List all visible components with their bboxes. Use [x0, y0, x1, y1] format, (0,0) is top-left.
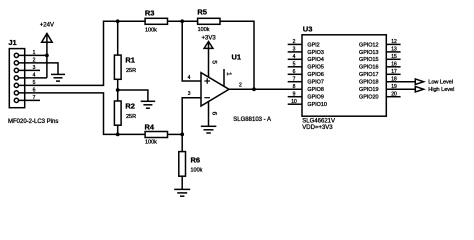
wire to R6: [181, 134, 183, 151]
U3 right pin numbers: [391, 39, 397, 97]
svg-text:2: 2: [239, 83, 242, 89]
wire pin5 to top rail: [19, 21, 146, 85]
svg-text:MF020-2-LC3 Pins: MF020-2-LC3 Pins: [8, 119, 58, 125]
ground G3: [174, 189, 190, 196]
svg-text:GPIO15: GPIO15: [359, 57, 378, 63]
node R3/R5 junction: [180, 19, 184, 23]
svg-text:7: 7: [33, 95, 36, 101]
U3 right pin 18 to Low Level: [386, 81, 415, 83]
wire R6 to ground: [181, 176, 183, 189]
svg-text:J1: J1: [8, 38, 16, 47]
svg-text:GPIO20: GPIO20: [359, 95, 378, 101]
node R1 top junction: [116, 19, 120, 23]
resistor R1: [114, 55, 121, 79]
svg-text:3: 3: [293, 47, 296, 53]
connector J1: [9, 49, 24, 108]
svg-text:SLG46621V: SLG46621V: [302, 119, 335, 125]
U3 right pin 12: [386, 43, 400, 45]
J1 pin numbers: [33, 50, 36, 101]
svg-text:18: 18: [391, 76, 397, 82]
svg-text:16: 16: [391, 61, 397, 67]
power +24V: [46, 34, 48, 56]
svg-text:GPIO5: GPIO5: [307, 65, 323, 71]
op-amp V- pin to ground: [208, 102, 210, 127]
resistor R4: [145, 132, 167, 138]
svg-text:6: 6: [293, 69, 296, 75]
power +3V3: [208, 42, 210, 78]
svg-text:12: 12: [391, 39, 397, 45]
svg-text:GPI2: GPI2: [307, 42, 319, 48]
wire R5 feedback to output: [220, 21, 254, 89]
U3 right pin 17: [386, 73, 400, 75]
svg-text:3: 3: [33, 65, 36, 71]
wire R1 to R2: [117, 79, 119, 101]
node R4/R6 junction: [180, 133, 184, 137]
U3 left pin 6: [288, 73, 302, 75]
svg-text:25R: 25R: [126, 68, 136, 74]
svg-text:5: 5: [293, 61, 296, 67]
svg-text:GPIO4: GPIO4: [307, 57, 323, 63]
svg-text:High Level: High Level: [428, 87, 454, 93]
U3 left pin 9: [288, 96, 302, 98]
svg-text:4: 4: [293, 54, 296, 60]
wire R1 top: [117, 21, 119, 55]
wire pin1 to pin4: [46, 55, 48, 78]
svg-text:10: 10: [291, 99, 297, 105]
svg-text:GPIO16: GPIO16: [359, 65, 378, 71]
ground G1: [51, 74, 65, 81]
ground G2: [141, 101, 156, 108]
svg-text:2: 2: [293, 39, 296, 45]
svg-text:3: 3: [188, 91, 191, 97]
wire R4 to node: [168, 133, 183, 135]
wire pin1: [19, 54, 47, 56]
U3 left pin numbers: [291, 39, 297, 105]
svg-text:GPIO10: GPIO10: [307, 102, 326, 108]
svg-text:17: 17: [391, 69, 397, 75]
svg-text:U1: U1: [232, 52, 242, 61]
wire pin2 to ground: [19, 63, 59, 75]
svg-text:GPIO18: GPIO18: [359, 80, 378, 86]
svg-text:4: 4: [188, 75, 191, 81]
wire pin3 stub: [19, 69, 41, 71]
U3 left pin 3: [288, 51, 302, 53]
svg-text:100k: 100k: [191, 167, 203, 173]
U3 left pin 5: [288, 66, 302, 68]
svg-text:9: 9: [293, 91, 296, 97]
op-amp U1: [201, 73, 229, 106]
svg-text:13: 13: [391, 47, 397, 53]
U3 left pin 10: [288, 103, 302, 105]
svg-text:7: 7: [293, 76, 296, 82]
svg-text:5: 5: [210, 60, 217, 64]
svg-text:GPIO13: GPIO13: [359, 50, 378, 56]
resistor R2: [114, 101, 121, 125]
node R2 bottom junction: [116, 133, 120, 137]
svg-text:6: 6: [210, 112, 217, 116]
svg-text:6: 6: [33, 88, 36, 94]
svg-text:R4: R4: [145, 122, 155, 131]
wire pin7 stub: [19, 99, 41, 101]
svg-text:+24V: +24V: [40, 23, 54, 29]
resistor R5: [198, 18, 220, 24]
wire pin6 to bottom rail: [19, 93, 146, 134]
svg-text:100k: 100k: [145, 140, 157, 146]
op-amp pin 1 stub: [223, 69, 225, 86]
U3 right pin labels: [359, 42, 378, 100]
svg-text:4: 4: [33, 73, 36, 79]
wire R2 bottom: [117, 125, 119, 134]
op-amp minus sign: [204, 97, 210, 99]
op-amp plus sign: [204, 78, 210, 84]
U3 right pin 13: [386, 51, 400, 53]
svg-text:R6: R6: [191, 156, 201, 165]
svg-text:5: 5: [33, 80, 36, 86]
svg-text:Low Level: Low Level: [428, 80, 453, 86]
svg-text:+3V3: +3V3: [202, 35, 217, 41]
svg-text:GPIO19: GPIO19: [359, 87, 378, 93]
U3 left pin 7: [288, 81, 302, 83]
resistor R6: [179, 152, 186, 177]
node R1/R2 junction: [116, 88, 120, 92]
svg-text:1: 1: [225, 72, 232, 76]
U3 right pin 15: [386, 58, 400, 60]
svg-text:15: 15: [391, 54, 397, 60]
resistor R3: [145, 18, 167, 24]
svg-text:R5: R5: [197, 8, 207, 17]
arrow High Level: [415, 86, 423, 92]
wire to ground G2: [118, 90, 148, 101]
svg-text:R1: R1: [125, 56, 135, 65]
node feedback junction: [252, 87, 256, 91]
wire pin4: [19, 77, 47, 79]
svg-text:VDD=+3V3: VDD=+3V3: [302, 125, 333, 131]
wire op-amp output to U3 pin8: [229, 88, 302, 90]
svg-text:R3: R3: [145, 8, 155, 17]
svg-text:SLG88103 - A: SLG88103 - A: [233, 117, 271, 123]
ground G4: [201, 126, 217, 133]
arrow Low Level: [415, 79, 423, 85]
U3 right pin 19 to High Level: [386, 88, 415, 90]
svg-text:GPIO6: GPIO6: [307, 72, 323, 78]
chip U3 body: [302, 35, 386, 116]
svg-text:GPIO17: GPIO17: [359, 72, 378, 78]
U3 left pin labels: [307, 42, 326, 108]
svg-text:R2: R2: [125, 102, 135, 111]
svg-text:20: 20: [391, 91, 397, 97]
svg-text:GPIO9: GPIO9: [307, 95, 323, 101]
svg-text:U3: U3: [303, 24, 313, 33]
wire to op-amp -input: [182, 98, 201, 135]
svg-text:2: 2: [33, 58, 36, 64]
svg-text:GPIO12: GPIO12: [359, 42, 378, 48]
svg-text:19: 19: [391, 84, 397, 90]
svg-text:GPIO7: GPIO7: [307, 80, 323, 86]
wire to op-amp +input: [182, 21, 201, 81]
node pin1/+24V junction: [45, 54, 49, 58]
svg-text:1: 1: [33, 50, 36, 56]
J1 pin circles: [14, 53, 18, 57]
svg-text:GPIO3: GPIO3: [307, 50, 323, 56]
svg-text:25R: 25R: [126, 114, 136, 120]
U3 right pin 16: [386, 66, 400, 68]
svg-text:GPIO8: GPIO8: [307, 87, 323, 93]
U3 left pin 2: [288, 43, 302, 45]
wire R3 to R5: [168, 20, 198, 22]
svg-text:100k: 100k: [198, 27, 210, 33]
U3 right pin 20: [386, 96, 400, 98]
svg-text:8: 8: [293, 84, 296, 90]
U3 left pin 4: [288, 58, 302, 60]
svg-text:100k: 100k: [145, 27, 157, 33]
